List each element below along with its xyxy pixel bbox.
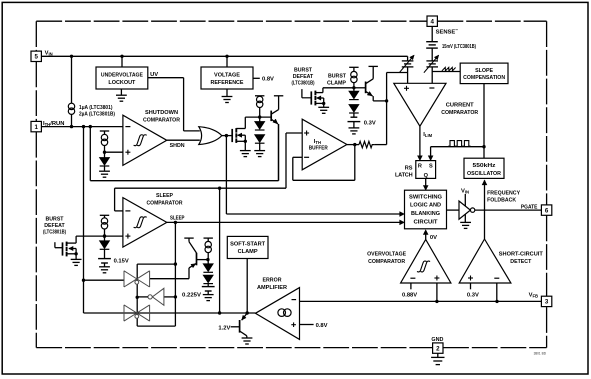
svg-text:CLAMP: CLAMP	[238, 249, 258, 255]
svg-text:CURRENT: CURRENT	[446, 103, 474, 109]
svg-text:BURST: BURST	[294, 67, 312, 73]
svg-text:VIN: VIN	[461, 189, 469, 195]
svg-text:2: 2	[436, 345, 440, 352]
svg-text:COMPENSATION: COMPENSATION	[463, 75, 505, 81]
svg-text:S: S	[429, 163, 433, 169]
svg-text:SENSE–: SENSE–	[436, 28, 459, 36]
svg-text:(LTC3801B): (LTC3801B)	[43, 230, 66, 236]
svg-text:SLEEP: SLEEP	[156, 193, 173, 199]
svg-text:BUFFER: BUFFER	[309, 145, 329, 151]
svg-text:3: 3	[545, 299, 549, 306]
svg-text:COMPARATOR: COMPARATOR	[147, 201, 184, 207]
svg-text:2µA (LTC3801B): 2µA (LTC3801B)	[79, 112, 115, 118]
svg-text:LOCKOUT: LOCKOUT	[108, 80, 135, 86]
svg-text:DETECT: DETECT	[510, 259, 531, 265]
svg-text:R: R	[418, 163, 422, 169]
svg-text:(LTC3801B): (LTC3801B)	[292, 80, 315, 86]
svg-text:15mV (LTC3801B): 15mV (LTC3801B)	[442, 44, 476, 50]
svg-text:1.2V: 1.2V	[218, 325, 230, 331]
svg-text:AMPLIFIER: AMPLIFIER	[257, 285, 288, 291]
svg-text:CIRCUIT: CIRCUIT	[414, 219, 438, 225]
svg-text:ITH: ITH	[314, 139, 321, 145]
svg-text:FREQUENCY: FREQUENCY	[487, 190, 520, 196]
svg-text:BLANKING: BLANKING	[411, 211, 440, 217]
svg-text:0.15V: 0.15V	[114, 259, 129, 265]
svg-text:0.3V: 0.3V	[364, 121, 376, 127]
svg-text:SLOPE: SLOPE	[475, 68, 493, 74]
svg-text:SHUTDOWN: SHUTDOWN	[145, 110, 178, 116]
svg-text:GND: GND	[431, 337, 443, 343]
svg-text:ILIM: ILIM	[423, 132, 432, 138]
svg-text:ITH/RUN: ITH/RUN	[43, 121, 64, 127]
svg-text:550kHz: 550kHz	[473, 163, 496, 169]
svg-text:1µA (LTC3801): 1µA (LTC3801)	[79, 105, 113, 111]
svg-text:0.88V: 0.88V	[402, 293, 417, 299]
svg-text:PGATE: PGATE	[521, 204, 538, 210]
svg-text:3801 BD: 3801 BD	[534, 352, 547, 356]
svg-text:LOGIC AND: LOGIC AND	[410, 203, 441, 209]
svg-text:REFERENCE: REFERENCE	[211, 80, 244, 86]
svg-text:6: 6	[545, 207, 549, 214]
svg-text:SOFT-START: SOFT-START	[230, 242, 265, 248]
svg-text:BURST: BURST	[328, 74, 346, 80]
svg-text:VFB: VFB	[529, 292, 538, 298]
svg-text:UNDERVOLTAGE: UNDERVOLTAGE	[101, 72, 143, 78]
svg-text:0V: 0V	[430, 235, 437, 241]
svg-text:CLAMP: CLAMP	[327, 80, 346, 86]
svg-text:0.8V: 0.8V	[262, 76, 274, 82]
svg-text:VOLTAGE: VOLTAGE	[214, 72, 240, 78]
svg-text:COMPARATOR: COMPARATOR	[368, 259, 406, 265]
svg-text:RS: RS	[405, 165, 413, 171]
svg-text:OSCILLATOR: OSCILLATOR	[467, 171, 502, 177]
svg-text:SLEEP: SLEEP	[170, 216, 185, 222]
svg-text:OVERVOLTAGE: OVERVOLTAGE	[367, 251, 406, 257]
svg-text:BURST: BURST	[46, 216, 64, 222]
svg-text:DEFEAT: DEFEAT	[44, 223, 65, 229]
svg-text:COMPARATOR: COMPARATOR	[143, 117, 181, 123]
svg-text:0.8V: 0.8V	[316, 323, 328, 329]
svg-text:Q: Q	[424, 173, 429, 179]
svg-text:ERROR: ERROR	[263, 278, 283, 284]
svg-text:4: 4	[430, 19, 434, 26]
svg-text:0.225V: 0.225V	[182, 293, 201, 299]
svg-text:5: 5	[34, 54, 38, 61]
svg-text:VIN: VIN	[45, 50, 53, 56]
svg-text:LATCH: LATCH	[395, 172, 413, 178]
svg-text:SHDN: SHDN	[170, 143, 185, 149]
svg-text:UV: UV	[150, 72, 158, 78]
svg-text:0.3V: 0.3V	[467, 293, 479, 299]
svg-text:1: 1	[34, 124, 38, 131]
svg-text:DEFEAT: DEFEAT	[293, 74, 314, 80]
svg-text:COMPARATOR: COMPARATOR	[441, 110, 479, 116]
svg-text:SHORT-CIRCUIT: SHORT-CIRCUIT	[499, 251, 543, 257]
svg-text:SWITCHING: SWITCHING	[409, 194, 442, 200]
svg-text:FOLDBACK: FOLDBACK	[487, 198, 517, 204]
